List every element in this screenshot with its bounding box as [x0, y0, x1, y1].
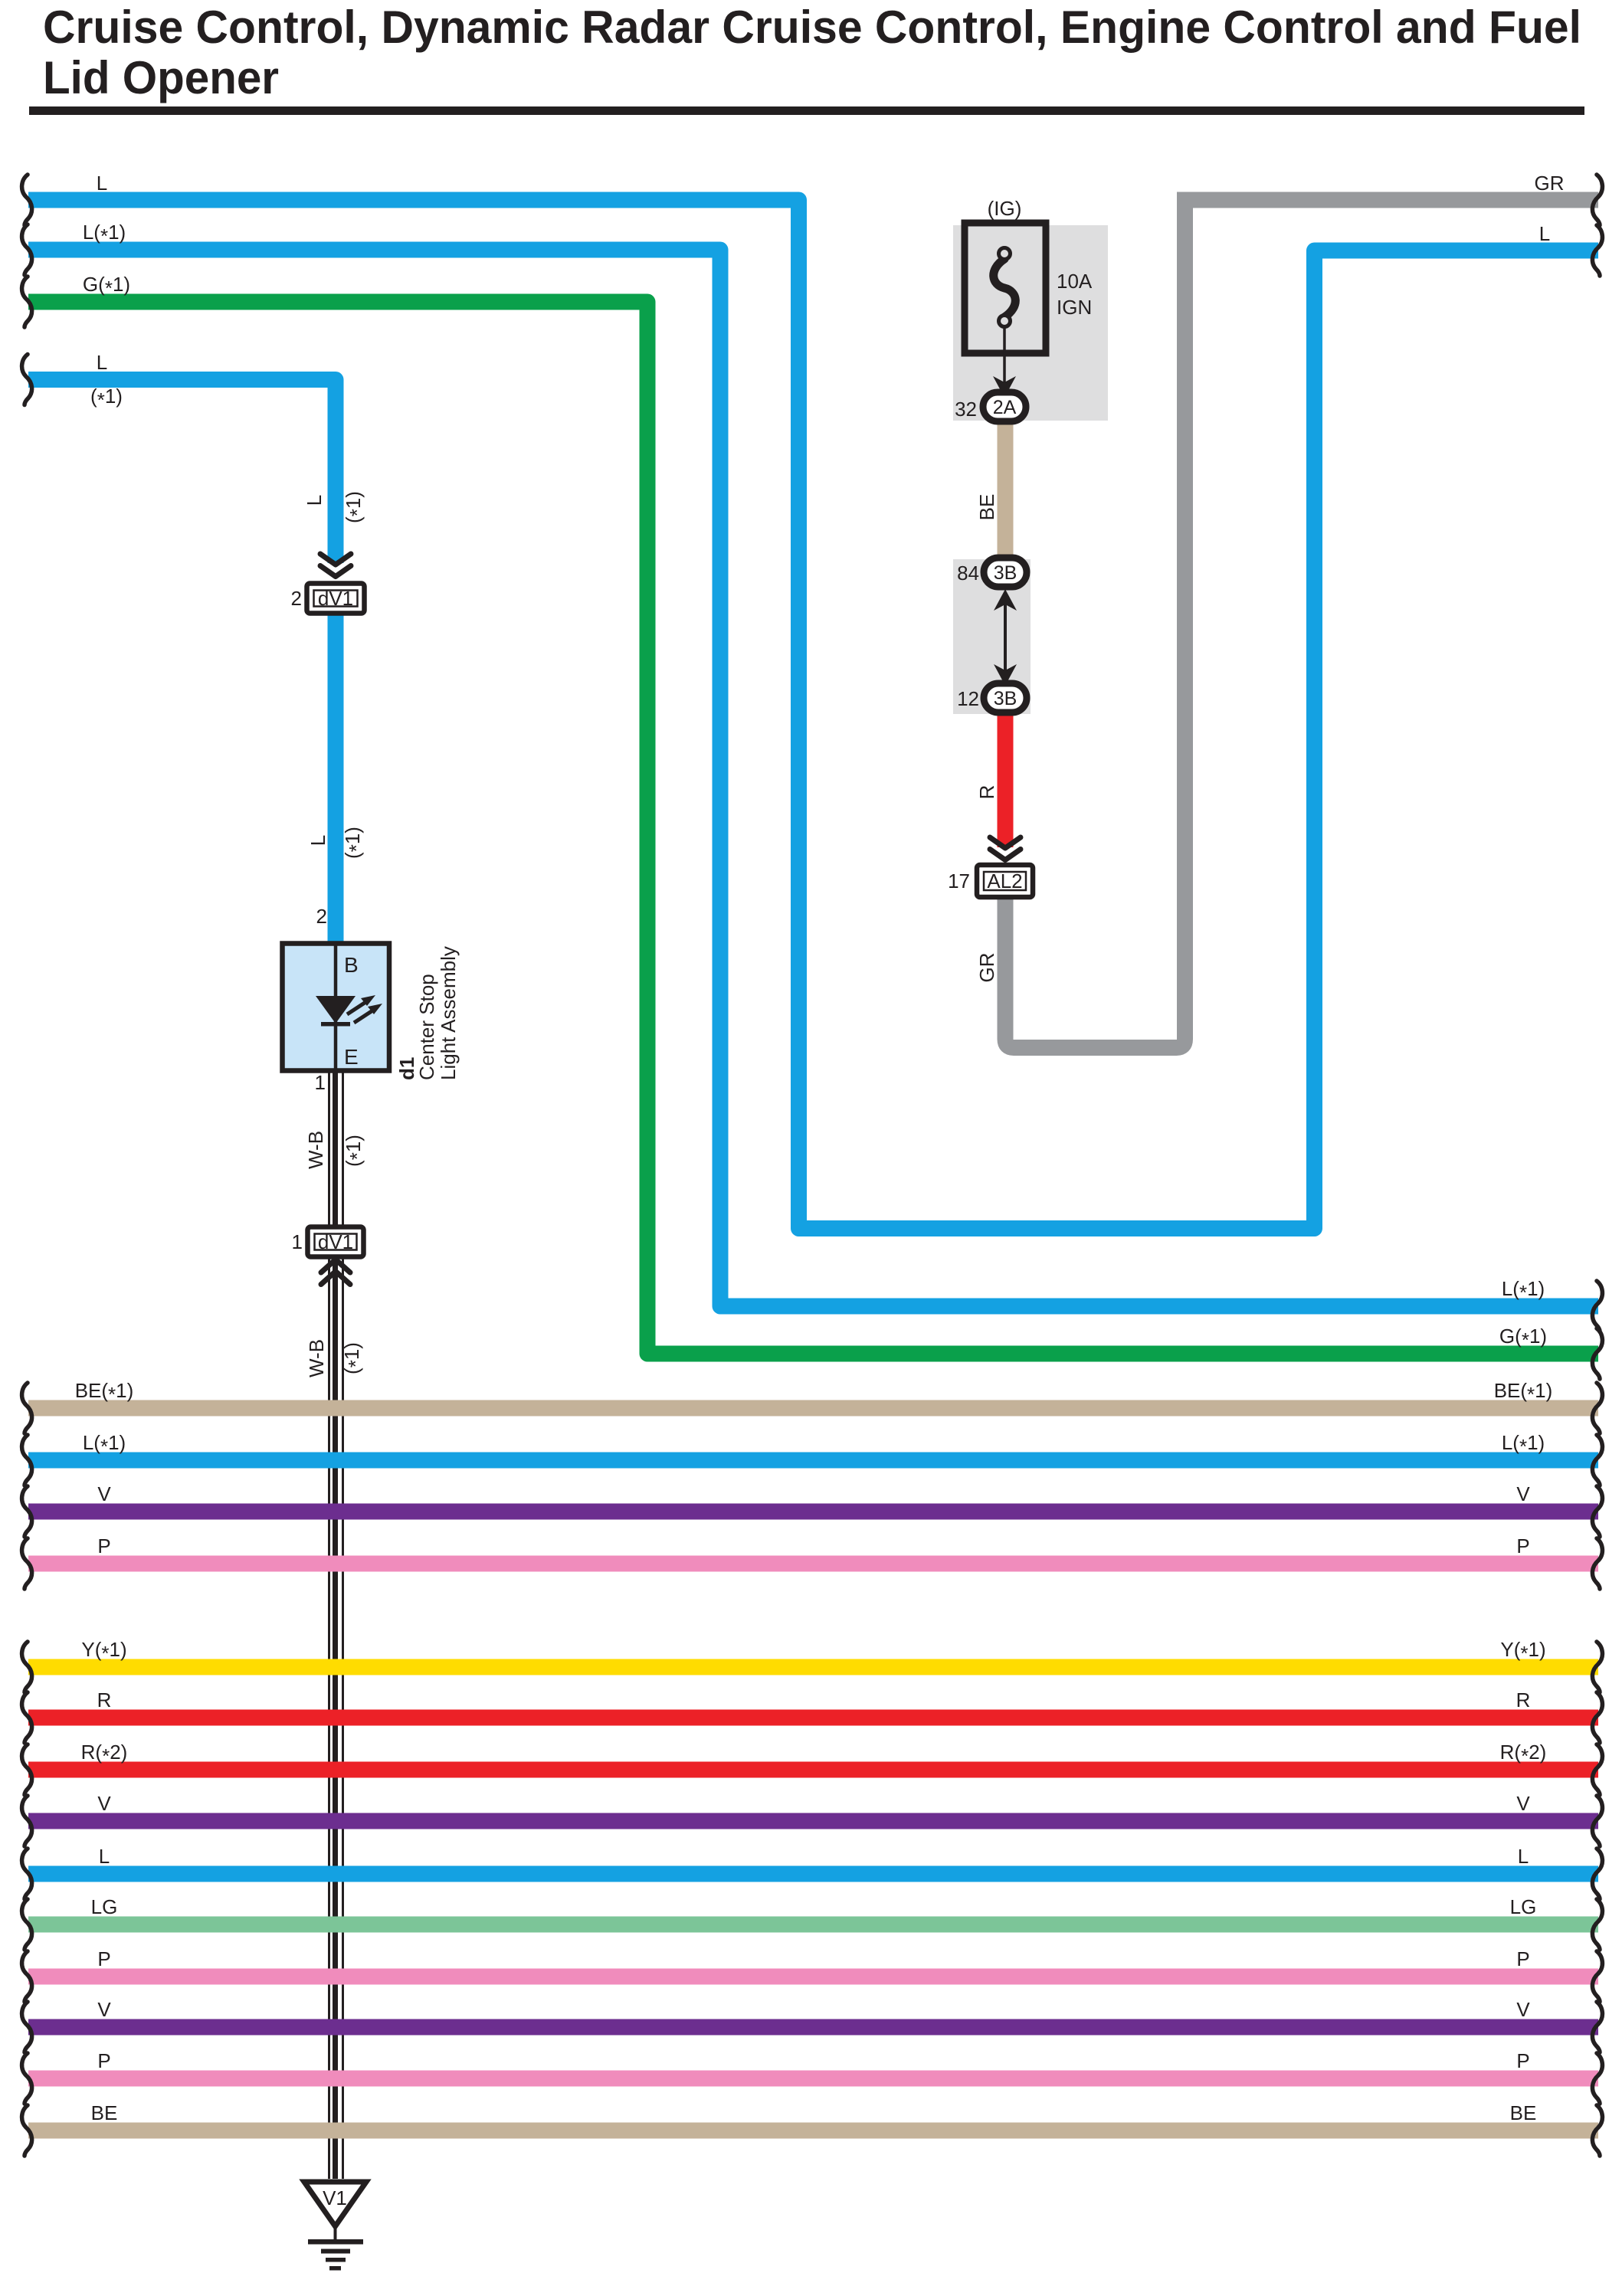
svg-text:Lid Opener: Lid Opener: [43, 52, 279, 103]
wire continuation symbol L(*1) right edge: [1592, 1281, 1602, 1331]
svg-text:R(*2): R(*2): [81, 1741, 128, 1767]
svg-text:L(*1): L(*1): [1502, 1277, 1545, 1304]
svg-text:P: P: [97, 1534, 110, 1557]
svg-text:32: 32: [955, 398, 977, 421]
wire W-B vertical (center stop light ground): [329, 1071, 343, 2179]
junction block panel (IG fuse): [953, 225, 1108, 421]
wire L horizontal bus y=2446: [28, 1866, 1598, 1882]
wire continuation symbol GR right edge: [1592, 175, 1602, 225]
svg-text:LG: LG: [91, 1895, 118, 1918]
svg-text:BE(*1): BE(*1): [1494, 1379, 1553, 1406]
svg-text:L: L: [303, 495, 326, 506]
svg-text:R: R: [975, 785, 998, 800]
wire P horizontal bus y=2713: [28, 2071, 1598, 2087]
svg-text:(*1): (*1): [90, 385, 123, 411]
svg-text:V: V: [1516, 1998, 1530, 2021]
svg-text:B: B: [344, 953, 359, 977]
svg-text:84: 84: [957, 562, 979, 585]
wire continuation symbol BE left edge: [22, 2105, 32, 2156]
junction connector panel 3B: [953, 559, 1031, 714]
arrow into 2A: [993, 376, 1016, 398]
svg-text:L: L: [99, 1845, 110, 1868]
svg-text:P: P: [1516, 1947, 1529, 1970]
center stop light assembly d1: [283, 943, 390, 1071]
wire continuation symbol P left edge: [22, 2053, 32, 2104]
svg-text:Y(*1): Y(*1): [1500, 1638, 1545, 1665]
wire continuation symbol BE(*1) right edge: [1592, 1383, 1602, 1433]
wire BE(*1) horizontal bus y=1838: [28, 1400, 1598, 1417]
wire continuation symbol P left edge: [22, 1951, 32, 2002]
wire continuation symbol P right edge: [1592, 1951, 1602, 2002]
svg-text:W-B: W-B: [304, 1131, 327, 1169]
wire fuse to 2A: [1003, 328, 1006, 383]
svg-text:GR: GR: [975, 953, 998, 983]
svg-text:IGN: IGN: [1057, 296, 1092, 319]
wire V horizontal bus y=2646: [28, 2019, 1598, 2036]
svg-text:(IG): (IG): [988, 197, 1022, 220]
wire continuation symbol LG right edge: [1592, 1899, 1602, 1950]
svg-text:(*1): (*1): [342, 1135, 369, 1167]
svg-text:R(*2): R(*2): [1500, 1741, 1547, 1767]
arrows out of dV1 pin 1: [321, 1259, 350, 1272]
svg-text:dV1: dV1: [318, 1230, 353, 1253]
wire G(*1): [28, 302, 1598, 1354]
LED symbol: [316, 996, 356, 1024]
wire R(*2) horizontal bus y=2310: [28, 1762, 1598, 1778]
svg-text:V: V: [1516, 1792, 1530, 1815]
svg-text:L: L: [1518, 1845, 1529, 1868]
wire V horizontal bus y=2377: [28, 1813, 1598, 1829]
wire continuation symbol L right edge: [1592, 1849, 1602, 1899]
wire continuation symbol P right edge: [1592, 2053, 1602, 2104]
connector dV1 pin 1: [292, 1227, 364, 1257]
svg-text:V: V: [97, 1998, 111, 2021]
wire continuation symbol V left edge: [22, 1796, 32, 1846]
svg-text:BE: BE: [91, 2101, 118, 2124]
wire P horizontal bus y=2580: [28, 1969, 1598, 1985]
svg-text:BE: BE: [1510, 2101, 1537, 2124]
wire GR loop: [1005, 200, 1598, 1048]
wire BE fuse to 3B: [998, 420, 1014, 561]
wire L(*1) horizontal bus y=1906: [28, 1453, 1598, 1469]
fuse element symbol: [994, 259, 1016, 317]
wire continuation symbol P right edge: [1592, 1538, 1602, 1589]
svg-text:Light Assembly: Light Assembly: [437, 946, 460, 1080]
wire continuation symbol L(*1) left edge: [22, 1435, 32, 1485]
wire Y(*1) horizontal bus y=2176: [28, 1659, 1598, 1675]
svg-text:V: V: [97, 1792, 111, 1815]
svg-text:2A: 2A: [993, 397, 1017, 418]
wire continuation symbol R(*2) left edge: [22, 1744, 32, 1795]
wire R horizontal bus y=2242: [28, 1710, 1598, 1726]
wire continuation symbol L(*1) left edge: [22, 224, 32, 275]
svg-text:3B: 3B: [994, 688, 1017, 709]
svg-text:L(*1): L(*1): [1502, 1431, 1545, 1458]
svg-text:Y(*1): Y(*1): [81, 1638, 126, 1665]
svg-text:R: R: [1516, 1688, 1531, 1711]
svg-text:V1: V1: [323, 2186, 347, 2209]
wire continuation symbol LG left edge: [22, 1899, 32, 1950]
svg-text:P: P: [97, 1947, 110, 1970]
wire continuation symbol V left edge: [22, 2002, 32, 2052]
wire continuation symbol L right edge: [1592, 225, 1602, 276]
svg-text:R: R: [97, 1688, 112, 1711]
wire continuation symbol R left edge: [22, 1692, 32, 1743]
svg-text:P: P: [1516, 1534, 1529, 1557]
svg-text:L(*1): L(*1): [83, 221, 126, 247]
svg-text:V: V: [97, 1482, 111, 1505]
svg-text:G(*1): G(*1): [83, 273, 130, 300]
wire continuation symbol L (*1) left edge: [22, 355, 32, 405]
wire continuation symbol Y(*1) right edge: [1592, 1642, 1602, 1692]
svg-text:2: 2: [316, 905, 327, 928]
wire continuation symbol G(*1) left edge: [22, 277, 32, 327]
wire continuation symbol Y(*1) left edge: [22, 1642, 32, 1692]
connector AL2 pin 17: [948, 865, 1033, 897]
wire continuation symbol G(*1) right edge: [1592, 1328, 1602, 1379]
connector 3B pin 84: [984, 558, 1027, 587]
svg-text:L(*1): L(*1): [83, 1431, 126, 1458]
wire V horizontal bus y=1973: [28, 1504, 1598, 1520]
connector 2A pin 32: [983, 392, 1026, 421]
svg-text:E: E: [344, 1045, 359, 1069]
svg-text:1: 1: [292, 1230, 303, 1253]
svg-text:2: 2: [291, 587, 302, 610]
wire continuation symbol BE right edge: [1592, 2105, 1602, 2156]
svg-text:17: 17: [948, 870, 970, 893]
connector dV1 pin 2: [291, 584, 365, 614]
svg-text:(*1): (*1): [340, 1342, 367, 1374]
wire L (*1) stub to dV1: [28, 380, 336, 564]
wire continuation symbol V right edge: [1592, 1796, 1602, 1846]
svg-text:10A: 10A: [1057, 270, 1093, 293]
wire continuation symbol L(*1) right edge: [1592, 1435, 1602, 1485]
ground V1: [304, 2182, 366, 2226]
svg-text:LG: LG: [1510, 1895, 1537, 1918]
connector 3B pin 12: [984, 683, 1027, 712]
ground bars: [308, 2239, 363, 2245]
wire continuation symbol L left edge: [22, 175, 32, 225]
wire continuation symbol P left edge: [22, 1538, 32, 1589]
svg-text:(*1): (*1): [341, 827, 368, 859]
svg-text:V: V: [1516, 1482, 1530, 1505]
svg-text:BE(*1): BE(*1): [75, 1379, 134, 1406]
arrows into AL2: [990, 837, 1021, 848]
svg-text:dV1: dV1: [318, 587, 353, 610]
arrows between 3B connectors: [994, 589, 1017, 611]
wire L (left to right loop): [28, 200, 1598, 1229]
wire continuation symbol L left edge: [22, 1849, 32, 1899]
fuse 10A IGN box: [965, 223, 1046, 353]
wire L(*1) left loop: [28, 250, 1598, 1306]
svg-text:W-B: W-B: [305, 1339, 328, 1377]
arrows into dV1 pin 2: [320, 554, 351, 565]
svg-text:Cruise Control, Dynamic Radar: Cruise Control, Dynamic Radar Cruise Con…: [43, 2, 1581, 53]
svg-text:L: L: [97, 351, 107, 374]
svg-text:3B: 3B: [994, 562, 1017, 584]
wire L (*1) dV1 to center stop light: [328, 613, 344, 944]
wire continuation symbol V right edge: [1592, 2002, 1602, 2052]
svg-text:BE: BE: [975, 494, 998, 521]
svg-text:L: L: [1539, 222, 1550, 245]
wire continuation symbol R right edge: [1592, 1692, 1602, 1743]
svg-text:AL2: AL2: [987, 870, 1022, 893]
wire continuation symbol V right edge: [1592, 1486, 1602, 1537]
wire continuation symbol R(*2) right edge: [1592, 1744, 1602, 1795]
wire continuation symbol V left edge: [22, 1486, 32, 1537]
svg-text:G(*1): G(*1): [1499, 1325, 1547, 1351]
svg-text:1: 1: [315, 1071, 326, 1094]
svg-text:L: L: [306, 835, 329, 846]
wire BE horizontal bus y=2781: [28, 2123, 1598, 2139]
wire R 3B to AL2: [998, 711, 1014, 847]
wire LG horizontal bus y=2512: [28, 1917, 1598, 1933]
svg-text:12: 12: [957, 687, 979, 710]
svg-text:GR: GR: [1535, 172, 1565, 195]
title rule: [29, 106, 1584, 115]
svg-text:Center Stop: Center Stop: [415, 974, 438, 1080]
svg-text:L: L: [97, 172, 107, 195]
wire P horizontal bus y=2041: [28, 1556, 1598, 1572]
svg-text:(*1): (*1): [342, 491, 369, 523]
svg-text:P: P: [1516, 2049, 1529, 2072]
svg-text:P: P: [97, 2049, 110, 2072]
wire continuation symbol BE(*1) left edge: [22, 1383, 32, 1433]
